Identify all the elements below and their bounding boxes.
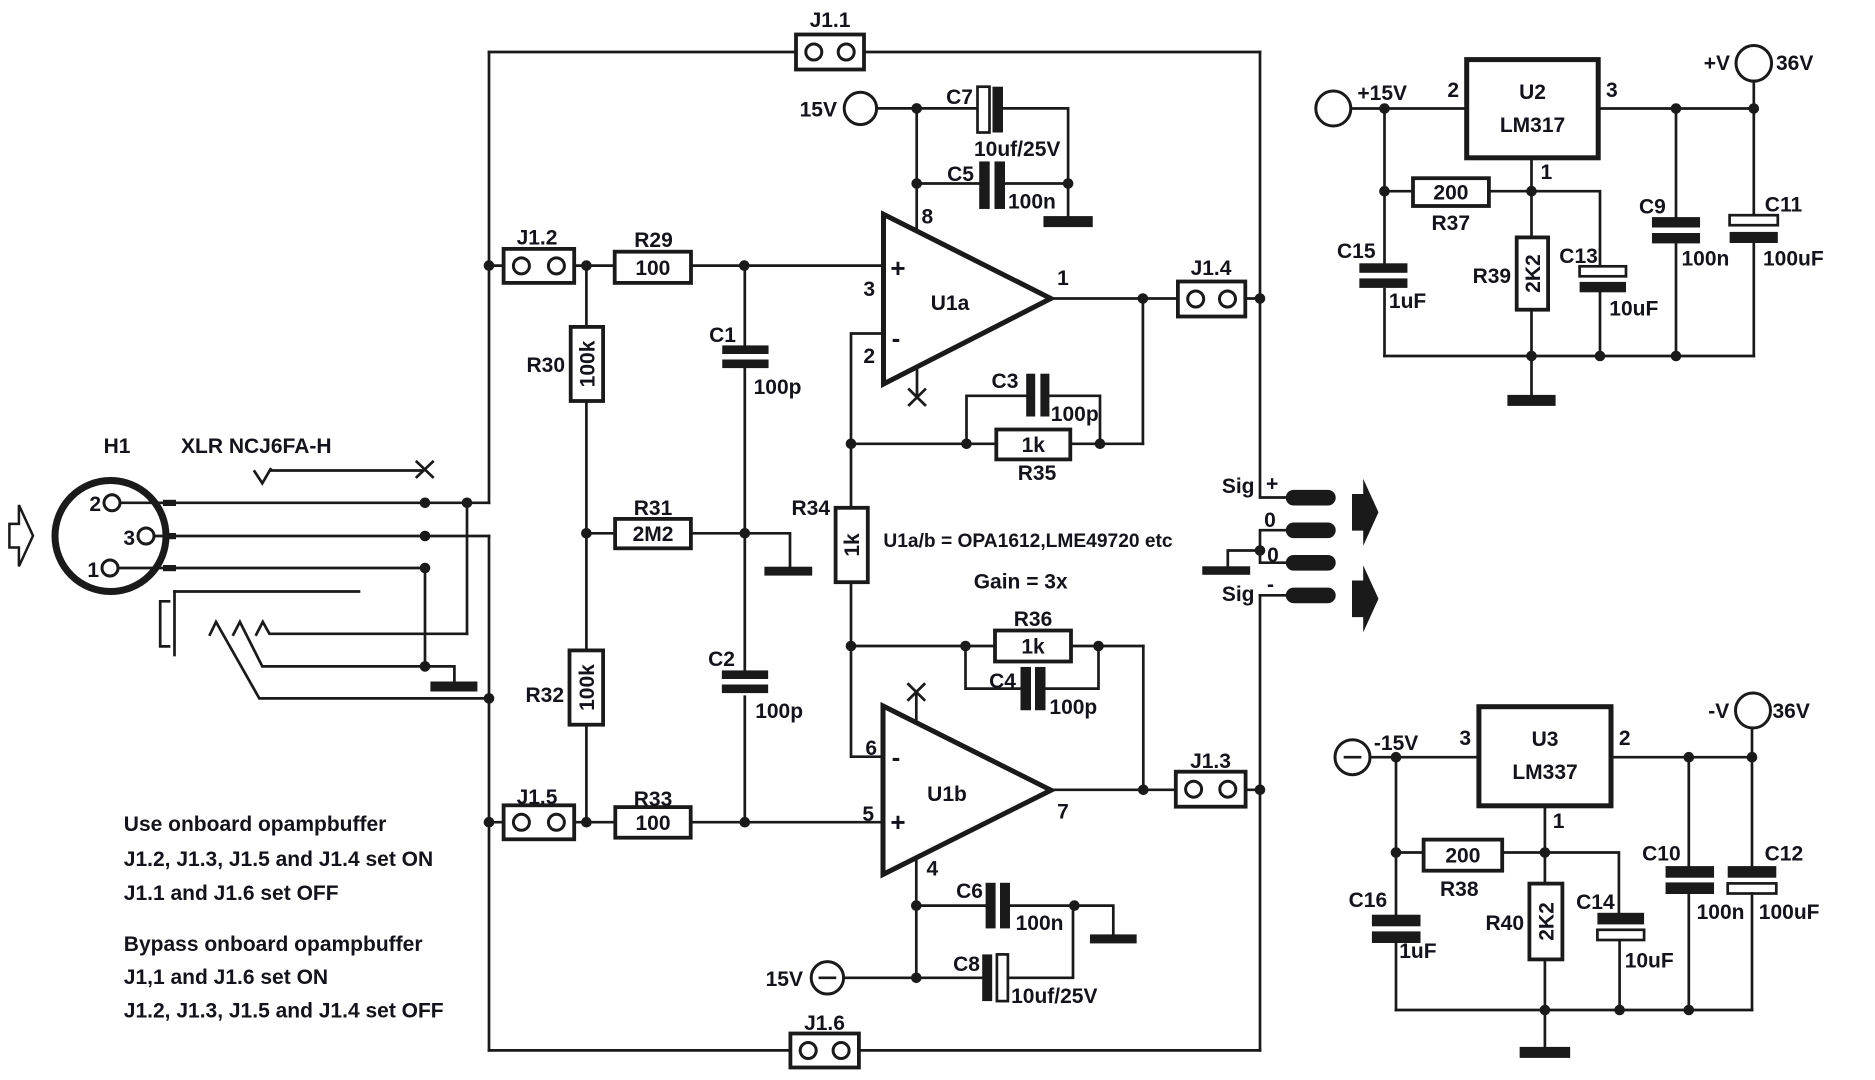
junction C1 top [739, 260, 750, 271]
wire pad sig- lead [1260, 594, 1286, 597]
svg-text:2M2: 2M2 [633, 523, 674, 546]
wire C8 right [1008, 906, 1073, 978]
svg-text:U1b: U1b [927, 783, 967, 806]
junction R30 R31 [581, 528, 592, 539]
wire R38 left lead [1396, 851, 1424, 854]
wire R39 top lead [1530, 191, 1533, 237]
wire R34 bottom lead [850, 582, 853, 646]
svg-text:3: 3 [1606, 79, 1618, 102]
wire U3 ground stub [1544, 1010, 1547, 1047]
wire left rail to J1.2 [489, 264, 504, 267]
svg-text:8: 8 [922, 206, 934, 229]
svg-text:C16: C16 [1349, 889, 1388, 912]
wire U1b pin 4 [915, 858, 918, 978]
wire R37 right to C13 [1489, 191, 1600, 266]
junction output feedback lower [1138, 785, 1149, 796]
wire J1.3 to right rail [1246, 788, 1260, 791]
power terminal 15V lower [811, 962, 843, 994]
svg-text:J1.2, J1.3, J1.5 and J1.4 set: J1.2, J1.3, J1.5 and J1.4 set OFF [124, 1000, 444, 1023]
wire U2 pin1 lead [1530, 158, 1533, 191]
offset-null X U1a [909, 390, 925, 406]
svg-text:+: + [890, 807, 905, 837]
wire C11 bottom lead [1752, 243, 1755, 356]
pin 2 terminal pad [163, 500, 176, 506]
capacitor C2 [722, 670, 768, 693]
jumper J1.5 [504, 805, 575, 839]
pin 2 of H1 [89, 493, 120, 516]
wire R40 bottom lead [1544, 959, 1547, 1010]
svg-text:-: - [892, 742, 901, 772]
svg-text:R39: R39 [1473, 265, 1512, 288]
wire left rail to J1.5 [489, 821, 504, 824]
wire gnd stub lower supply [1074, 906, 1113, 935]
wire R31 to C1C2 node [691, 533, 790, 566]
pad 0 lower [1286, 555, 1336, 571]
wire bottom rail [489, 1049, 1260, 1052]
op-amp U1b [883, 706, 1051, 875]
wire C15 bottom lead [1383, 289, 1386, 356]
wire U3 pin2 out [1611, 756, 1752, 759]
junction pin3 row [420, 531, 431, 542]
wire J1.5 to R33 [574, 821, 615, 824]
junction pin4 C8 [911, 973, 922, 984]
svg-text:LM337: LM337 [1512, 761, 1577, 784]
capacitor C6 [986, 883, 1010, 929]
svg-text:R38: R38 [1440, 878, 1479, 901]
svg-text:-: - [1267, 574, 1274, 597]
wire +15V to U2 [1351, 107, 1467, 110]
svg-text:2: 2 [1447, 79, 1459, 102]
wire C6 right [1010, 904, 1074, 907]
output arrow lower [1352, 565, 1379, 632]
svg-text:U2: U2 [1519, 81, 1546, 104]
svg-text:+: + [1266, 473, 1278, 496]
svg-text:100p: 100p [1051, 403, 1099, 426]
wire R33 to U1b pin5 [691, 821, 883, 824]
svg-text:R33: R33 [634, 788, 673, 811]
junction feedback row [846, 439, 1106, 450]
svg-text:J1.2: J1.2 [517, 227, 558, 250]
wire feedback row upper [851, 442, 1143, 445]
svg-text:0: 0 [1264, 509, 1276, 532]
wire C14 bottom lead [1618, 941, 1621, 1010]
jumper J1.3 [1176, 772, 1246, 807]
wire C2 vertical [743, 533, 746, 822]
svg-text:15V: 15V [766, 968, 803, 991]
jack ring contact [233, 622, 454, 682]
svg-text:C2: C2 [708, 648, 735, 671]
svg-text:H1: H1 [104, 435, 131, 458]
wire pin 3 row [154, 535, 489, 538]
junction -15V C16 branch [1391, 752, 1402, 763]
wire R40 top lead [1544, 853, 1547, 884]
svg-text:7: 7 [1057, 801, 1069, 824]
wire tip contact to pin2 [466, 503, 469, 634]
svg-text:C15: C15 [1337, 240, 1376, 263]
junction right rail J1.4 [1255, 293, 1266, 304]
wire U3 pin1 lead [1544, 806, 1547, 853]
junction +15V C15 branch [1379, 103, 1390, 114]
svg-text:C5: C5 [947, 163, 974, 186]
power terminal -V [1736, 693, 1771, 728]
resistor R38 [1424, 840, 1503, 871]
ground U3 [1520, 1047, 1571, 1058]
svg-text:6: 6 [865, 737, 877, 760]
capacitor C3 [1026, 374, 1049, 417]
svg-text:XLR NCJ6FA-H: XLR NCJ6FA-H [181, 435, 332, 458]
junction pin4 C6 [911, 900, 922, 911]
wire R38 right to C14 [1502, 853, 1619, 913]
svg-text:5: 5 [862, 803, 874, 826]
svg-text:1: 1 [1553, 810, 1565, 833]
capacitor C16 [1372, 915, 1421, 943]
svg-text:1k: 1k [1021, 636, 1045, 659]
wire U1a pin2 lead [851, 334, 884, 444]
svg-text:200: 200 [1433, 182, 1468, 205]
polarity check line [255, 469, 422, 483]
svg-text:R30: R30 [526, 354, 565, 377]
svg-text:U1a/b = OPA1612,LME49720 etc: U1a/b = OPA1612,LME49720 etc [883, 531, 1173, 552]
svg-text:10uf/25V: 10uf/25V [1011, 985, 1097, 1008]
svg-text:10uF: 10uF [1609, 298, 1658, 321]
wire 15V to pin8 node [877, 107, 978, 110]
svg-text:1k: 1k [841, 533, 864, 557]
wire C9 bottom lead [1675, 244, 1678, 356]
wire C12 top lead [1751, 757, 1754, 866]
resistor R34 [836, 508, 868, 582]
wire R32 bottom lead [585, 725, 588, 823]
junction U2 ground rail [1526, 351, 1681, 362]
svg-text:-15V: -15V [1374, 732, 1418, 755]
svg-text:+V: +V [1704, 52, 1730, 75]
svg-text:100k: 100k [576, 664, 599, 711]
wire right rail upper [1260, 52, 1286, 498]
ground sig reference [1202, 566, 1250, 575]
svg-text:100n: 100n [1697, 901, 1745, 924]
wire pin 1 row [118, 568, 425, 666]
ground U2 [1507, 395, 1555, 406]
capacitor C12 [1728, 866, 1777, 893]
junction sleeve to left rail [484, 693, 495, 704]
junction U2 output row [1671, 103, 1759, 114]
svg-text:J1,1 and J1.6 set ON: J1,1 and J1.6 set ON [124, 966, 328, 989]
power terminal +15V [1316, 91, 1351, 126]
power terminal -15V [1335, 740, 1370, 775]
junction pin1 corner [420, 563, 431, 574]
svg-text:1uF: 1uF [1389, 290, 1427, 313]
junction R37 left [1379, 186, 1390, 197]
wire +V lead [1752, 81, 1755, 108]
pad Sig- [1286, 588, 1336, 604]
jumper J1.4 [1178, 282, 1245, 317]
wire C1 vertical [743, 266, 746, 534]
svg-text:3: 3 [863, 278, 875, 301]
resistor R36 [995, 631, 1071, 662]
svg-text:100n: 100n [1016, 912, 1064, 935]
svg-text:2: 2 [863, 345, 875, 368]
svg-text:J1.1 and J1.6 set OFF: J1.1 and J1.6 set OFF [124, 882, 339, 905]
resistor R39 [1517, 237, 1548, 309]
svg-text:Gain = 3x: Gain = 3x [974, 571, 1068, 594]
wire -V lead [1751, 728, 1754, 757]
wire R34 top lead [850, 444, 853, 508]
svg-text:J1.3: J1.3 [1190, 750, 1231, 773]
svg-text:Sig: Sig [1222, 475, 1255, 498]
svg-text:U1a: U1a [931, 292, 970, 315]
junction output feedback [1138, 293, 1149, 304]
junction U3 output row [1684, 752, 1758, 763]
svg-text:C3: C3 [992, 370, 1019, 393]
offset-null stub U1a [916, 367, 919, 398]
svg-text:10uF: 10uF [1625, 950, 1674, 973]
svg-text:1: 1 [1057, 267, 1069, 290]
wire U1b output [1051, 788, 1176, 791]
svg-text:R37: R37 [1432, 212, 1471, 235]
svg-text:R31: R31 [634, 497, 673, 520]
jumper J1.1 [796, 35, 864, 70]
wire -15V to U3 [1370, 756, 1479, 759]
junction R30 top [581, 260, 592, 271]
junction left rail J1.2 [484, 260, 495, 271]
wire R39 bottom lead [1530, 310, 1533, 356]
wire U2 pin3 out [1598, 107, 1754, 110]
wire R37 left lead [1385, 190, 1414, 193]
wire U3 ground rail [1396, 1009, 1752, 1012]
svg-text:100p: 100p [755, 700, 803, 723]
svg-text:C9: C9 [1639, 196, 1666, 219]
svg-text:R32: R32 [525, 684, 564, 707]
junction C5 C7 right [1063, 178, 1074, 189]
jack body line [173, 592, 176, 656]
svg-text:100p: 100p [1049, 696, 1097, 719]
junction C2 bottom [740, 817, 751, 828]
wire R30 bottom lead [585, 401, 588, 533]
wire right rail lower [1259, 595, 1262, 1050]
svg-text:C8: C8 [953, 953, 980, 976]
svg-text:R35: R35 [1018, 462, 1057, 485]
capacitor C8 [982, 954, 1008, 1001]
svg-text:C14: C14 [1576, 891, 1615, 914]
junction R32 bottom [581, 817, 592, 828]
capacitor C14 [1597, 913, 1644, 940]
ground jack [430, 682, 477, 692]
wire U1a pin 8 [915, 108, 918, 231]
ground lower supply [1090, 934, 1137, 943]
junction C6 C8 right [1069, 900, 1080, 911]
connector H1 XLR shell [55, 481, 166, 592]
wire 15V lower to C8 [844, 976, 983, 979]
svg-text:100: 100 [635, 257, 670, 280]
junction ring contact [420, 661, 431, 672]
svg-text:100uF: 100uF [1759, 901, 1820, 924]
wire R29 to U1a pin3 [691, 264, 884, 267]
op-amp U1a [884, 214, 1051, 384]
pad Sig+ [1286, 490, 1336, 506]
capacitor C13 [1580, 266, 1626, 292]
svg-text:Use onboard opampbuffer: Use onboard opampbuffer [124, 813, 387, 836]
wire C7 right to down [1003, 108, 1068, 216]
wire C10 top lead [1687, 757, 1690, 866]
resistor R33 [615, 807, 690, 838]
svg-text:200: 200 [1445, 845, 1480, 868]
svg-text:2: 2 [1619, 727, 1631, 750]
wire J1.2 to R29 [574, 264, 615, 267]
junction pin2 row [420, 498, 473, 509]
ground upper supply [1043, 216, 1092, 227]
resistor R30 [571, 327, 603, 401]
wire R32 top lead [585, 533, 588, 650]
junction left rail J1.5 [484, 817, 495, 828]
pin 1 of H1 [87, 559, 118, 582]
svg-text:1: 1 [1541, 161, 1553, 184]
svg-text:U3: U3 [1532, 728, 1559, 751]
svg-text:J1.2, J1.3, J1.5 and J1.4 set: J1.2, J1.3, J1.5 and J1.4 set ON [124, 848, 433, 871]
svg-text:36V: 36V [1776, 52, 1813, 75]
junction feedback row lower [960, 641, 1104, 652]
svg-text:15V: 15V [800, 99, 837, 122]
wire feedback drop lower [1142, 646, 1145, 790]
wire R30 top lead [585, 266, 588, 327]
polarity X mark [417, 462, 433, 477]
svg-text:J1.1: J1.1 [810, 9, 851, 32]
capacitor C9 [1652, 217, 1700, 243]
pin 1 terminal pad [163, 565, 176, 571]
svg-text:100n: 100n [1682, 248, 1730, 271]
svg-text:100uF: 100uF [1763, 248, 1824, 271]
junction R38 left [1391, 847, 1402, 858]
wire U2 ground rail [1385, 355, 1754, 358]
svg-text:C7: C7 [946, 86, 973, 109]
wire R30 to R31 [586, 532, 615, 535]
svg-text:LM317: LM317 [1500, 114, 1565, 137]
offset-null stub U1b [915, 692, 918, 723]
resistor R29 [615, 252, 691, 283]
capacitor C11 [1730, 215, 1778, 243]
junction R31 C1C2 [740, 528, 751, 539]
regulator U2 LM317 [1467, 60, 1599, 158]
svg-text:100n: 100n [1008, 191, 1056, 214]
capacitor C15 [1359, 263, 1407, 288]
resistor R35 [996, 430, 1070, 460]
svg-text:+: + [890, 253, 905, 283]
svg-text:2: 2 [89, 493, 101, 516]
junction pin1 R40 [1540, 847, 1551, 858]
svg-text:R34: R34 [791, 497, 830, 520]
wire C16 bottom lead [1395, 943, 1398, 1010]
wire U2 ground stub [1530, 356, 1533, 395]
resistor R40 [1529, 884, 1562, 960]
svg-text:100: 100 [635, 812, 670, 835]
power terminal +V [1736, 46, 1772, 82]
wire top rail [489, 51, 1260, 54]
wire C13 bottom lead [1599, 292, 1602, 356]
svg-text:2K2: 2K2 [1522, 254, 1545, 293]
svg-text:100k: 100k [576, 340, 599, 387]
wire pin 2 row [120, 501, 489, 504]
svg-text:+15V: +15V [1357, 82, 1407, 105]
wire J1.4 to right rail [1245, 297, 1260, 300]
svg-text:4: 4 [927, 858, 939, 881]
resistor R32 [570, 650, 604, 724]
svg-text:-V: -V [1708, 700, 1729, 723]
wire C5 left [917, 182, 980, 185]
power terminal 15V upper [844, 92, 876, 124]
resistor R31 [615, 519, 691, 548]
capacitor C5 [979, 161, 1005, 209]
svg-text:C1: C1 [709, 324, 736, 347]
svg-text:J1.4: J1.4 [1191, 257, 1232, 280]
svg-text:C6: C6 [956, 880, 983, 903]
svg-text:1uF: 1uF [1399, 940, 1437, 963]
svg-text:C13: C13 [1559, 245, 1598, 268]
regulator U3 LM337 [1479, 707, 1611, 806]
svg-text:3: 3 [123, 527, 135, 550]
input arrow symbol [9, 505, 33, 566]
svg-text:J1.5: J1.5 [517, 786, 558, 809]
jack bracket [160, 601, 169, 646]
wire ground stub sig [1228, 551, 1260, 567]
svg-text:R29: R29 [634, 229, 673, 252]
jumper J1.2 [504, 249, 575, 283]
junction R34 R36 [846, 641, 857, 652]
jack sleeve contact [210, 622, 489, 699]
svg-text:1: 1 [87, 559, 99, 582]
svg-text:Sig: Sig [1222, 583, 1255, 606]
svg-text:3: 3 [1459, 727, 1471, 750]
wire C15 branch [1383, 109, 1386, 264]
resistor R37 [1413, 178, 1489, 206]
wire C10 bottom lead [1687, 894, 1690, 1010]
junction C5 left [911, 178, 922, 189]
wire left rail lower (pin3 to bottom rail) [488, 536, 491, 1050]
junction right rail J1.3 [1255, 785, 1266, 796]
wire U1a output [1051, 297, 1178, 300]
jumper J1.6 [790, 1034, 859, 1068]
junction U3 ground rail [1540, 1005, 1695, 1016]
svg-text:J1.6: J1.6 [804, 1012, 845, 1035]
capacitor C4 [1021, 667, 1046, 710]
wire feedback drop [1142, 299, 1145, 444]
svg-text:C12: C12 [1765, 843, 1804, 866]
capacitor C7 [978, 87, 1004, 133]
pin 3 terminal pad [163, 533, 176, 539]
wire C5 right [1005, 182, 1068, 185]
offset-null X U1b [908, 684, 924, 700]
svg-text:10uf/25V: 10uf/25V [974, 138, 1060, 161]
pad 0 upper [1286, 523, 1336, 539]
ground mid reference [764, 567, 812, 576]
svg-text:-: - [892, 323, 901, 353]
capacitor C10 [1666, 866, 1715, 894]
capacitor C1 [722, 345, 768, 368]
pin 3 of H1 [123, 527, 154, 550]
wire feedback row lower [851, 645, 1143, 648]
junction pin8 top [911, 103, 922, 114]
svg-text:C11: C11 [1765, 194, 1803, 217]
wire U1b pin6 lead [851, 646, 883, 757]
svg-text:100p: 100p [754, 376, 802, 399]
wire left rail upper (pin2 to top rail) [488, 52, 491, 503]
wire C9 top lead [1675, 109, 1678, 218]
wire C6 left [916, 904, 985, 907]
wire C11 top lead [1752, 109, 1755, 216]
wire C12 bottom lead [1751, 894, 1754, 1011]
wire C16 branch [1395, 757, 1398, 915]
svg-text:R40: R40 [1485, 912, 1524, 935]
svg-text:R36: R36 [1014, 608, 1053, 631]
junction pin1 R39 [1526, 186, 1537, 197]
svg-text:36V: 36V [1773, 700, 1810, 723]
